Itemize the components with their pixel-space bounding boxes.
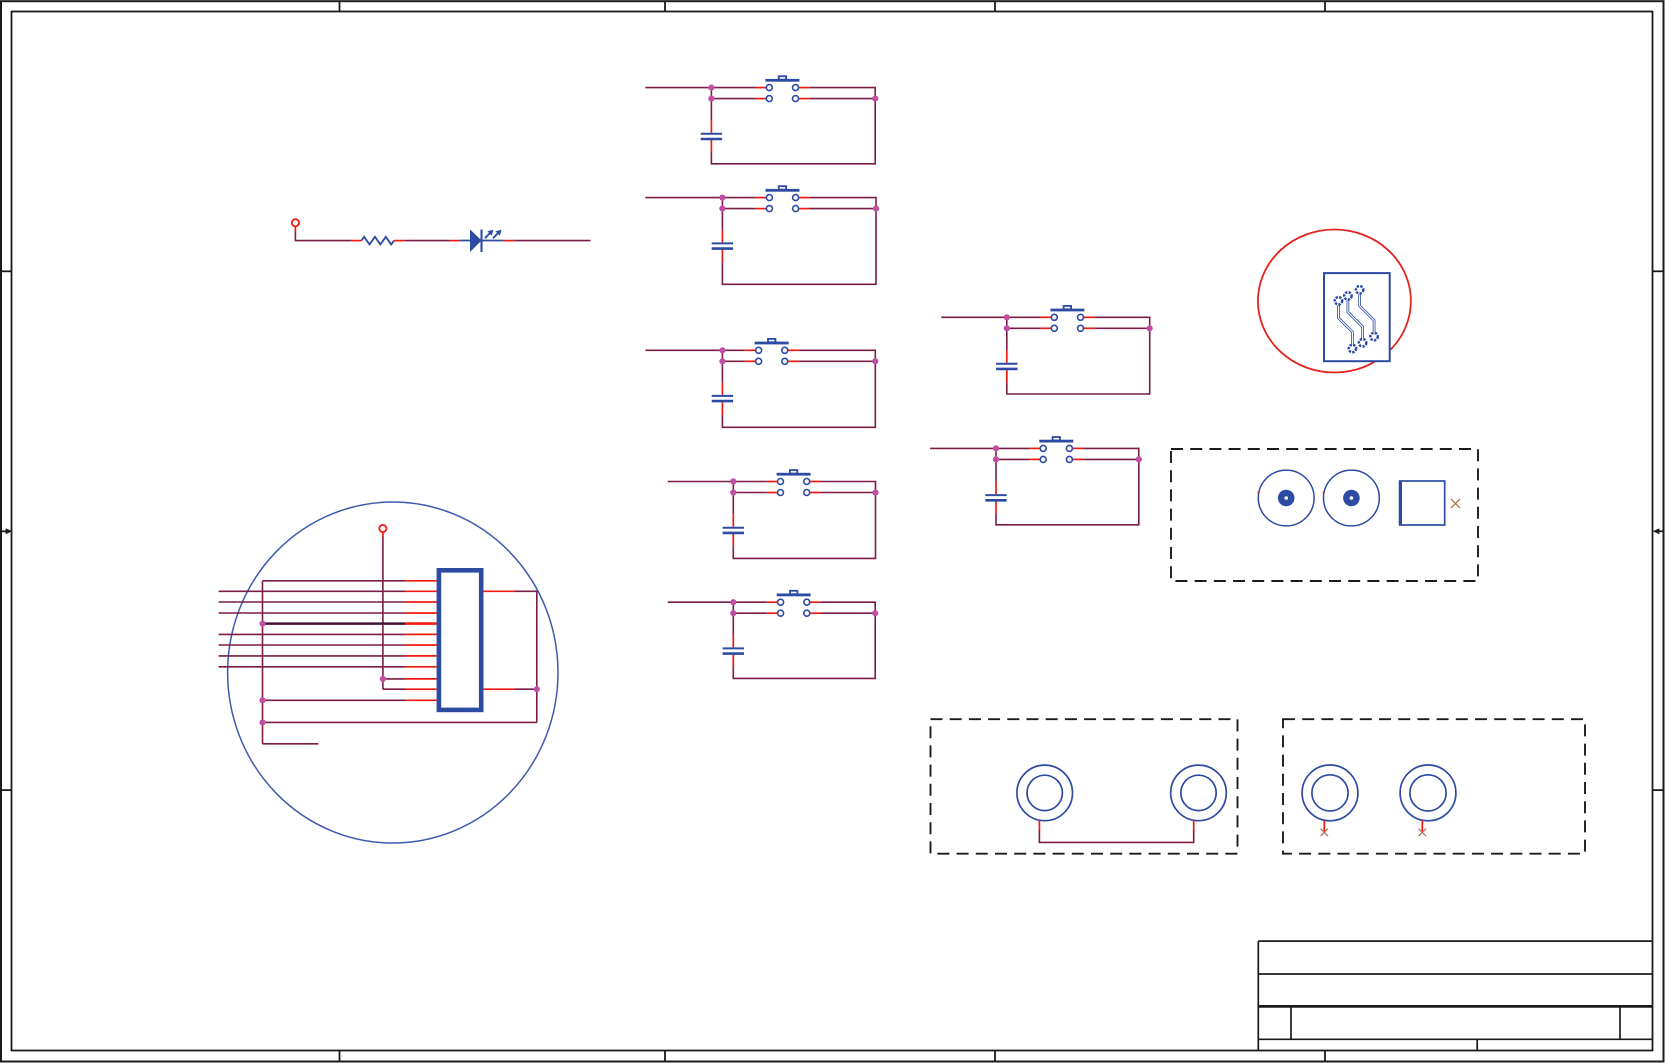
wire: [733, 612, 767, 614]
wire: [732, 602, 734, 613]
wire: [821, 492, 876, 494]
wire: [732, 493, 734, 515]
wire: [733, 492, 766, 494]
junction: [872, 610, 878, 616]
wire: [722, 360, 744, 362]
junction: [259, 719, 265, 725]
wire: [710, 88, 712, 99]
wire: [219, 633, 406, 635]
junction: [380, 676, 386, 682]
PCB logo pad 6: [1370, 333, 1377, 340]
wire: [668, 481, 767, 483]
wire: [711, 88, 875, 164]
push-button circuit SW6: [941, 306, 1153, 394]
switch SW6 pin stubs: [1041, 317, 1095, 328]
capacitor C4 pin stub: [732, 514, 734, 527]
junction: [719, 195, 725, 201]
wire: [219, 644, 406, 646]
switch SW7: [1039, 437, 1073, 462]
wire: [382, 538, 384, 690]
LED D1 pin stub: [449, 240, 460, 242]
no-connect mark: [1419, 829, 1426, 836]
junction: [730, 489, 736, 495]
push-button circuit SW1: [645, 76, 878, 164]
wire: [941, 316, 1040, 318]
junction: [730, 610, 736, 616]
wire: [721, 209, 723, 230]
left centering arrow: [1, 528, 12, 534]
wire: [1083, 458, 1139, 460]
PCB logo pad 3: [1356, 286, 1363, 293]
PCB logo pad 2: [1344, 292, 1351, 299]
wire: [383, 688, 406, 690]
wire: [295, 232, 350, 241]
capacitor C6 pin stub: [1006, 370, 1008, 383]
wire: [809, 98, 875, 100]
PCB logo trace 2: [1348, 300, 1363, 338]
junction: [872, 96, 878, 102]
wire: [515, 591, 537, 722]
wire: [722, 198, 876, 285]
capacitor C3: [712, 396, 733, 401]
highlight circle: [228, 502, 558, 843]
capacitor C7 pin stub: [995, 501, 997, 514]
junction: [730, 478, 736, 484]
wire: [514, 240, 590, 242]
wire: [722, 208, 755, 210]
junction: [1147, 325, 1153, 331]
switch SW4 pin stubs: [767, 482, 821, 493]
wire: [930, 447, 1029, 449]
push-button circuit SW2: [645, 186, 879, 284]
connector pin P2: [379, 525, 386, 532]
wire: [1039, 830, 1193, 842]
wire: [262, 581, 264, 744]
PCB logo pad 5: [1359, 339, 1366, 346]
PCB logo trace 3: [1360, 294, 1375, 332]
capacitor C2 pin stub: [721, 230, 723, 243]
jacks group box 2: [1283, 719, 1585, 854]
wire: [645, 197, 755, 199]
junction: [708, 85, 714, 91]
wire: [1094, 327, 1149, 329]
wire: [263, 721, 537, 723]
capacitor C1: [701, 134, 722, 139]
junction: [719, 358, 725, 364]
wire: [711, 98, 755, 100]
switch SW1: [765, 76, 799, 101]
wire: [710, 99, 712, 121]
wire: [405, 240, 449, 242]
no-connect mark: [1321, 829, 1328, 836]
junction: [259, 621, 265, 627]
wire: [1007, 317, 1150, 394]
resistor R1 pin stub: [351, 240, 362, 242]
mounting hole H2: [1323, 470, 1380, 526]
wire: [219, 601, 406, 603]
capacitor C1 pin stub: [710, 120, 712, 133]
capacitor C5: [723, 648, 744, 653]
junction: [1004, 314, 1010, 320]
capacitor C5 pin stub: [732, 635, 734, 648]
jacks group box: [931, 719, 1238, 854]
wire: [1006, 328, 1008, 350]
jack J1 pin stub: [1038, 820, 1040, 831]
wire: [733, 602, 875, 678]
wire: [219, 666, 406, 668]
jack J1: [1017, 765, 1073, 821]
junction: [1004, 325, 1010, 331]
wire: [733, 482, 875, 559]
capacitor C7 pin stub: [995, 482, 997, 495]
junction: [872, 358, 878, 364]
switch SW2 pin stubs: [756, 198, 810, 209]
switch SW3: [755, 339, 789, 364]
wire: [1006, 317, 1008, 328]
wire: [645, 87, 755, 89]
capacitor C2: [712, 243, 733, 248]
connector U1: [439, 570, 481, 710]
right centering arrow: [1653, 528, 1664, 534]
push-button circuit SW4: [668, 470, 879, 558]
wire: [263, 699, 406, 701]
wire: [721, 350, 723, 361]
PCB logo frame: [1324, 273, 1390, 361]
wire: [645, 349, 744, 351]
switch SW2: [766, 186, 800, 211]
capacitor C3 pin stub: [721, 402, 723, 415]
wire: [722, 350, 875, 427]
connector U1 pin stubs: [405, 581, 514, 701]
PCB logo trace 1: [1339, 305, 1353, 344]
junction: [873, 206, 879, 212]
junction: [259, 697, 265, 703]
jack J3 pin stub: [1323, 820, 1325, 831]
resistor R1: [361, 237, 394, 245]
junction: [872, 489, 878, 495]
title block: [1258, 941, 1652, 1050]
wire: [996, 448, 1139, 524]
no-connect mark: [1451, 499, 1460, 508]
switch SW7 pin stubs: [1029, 448, 1083, 459]
wire: [219, 590, 406, 592]
switch SW4: [777, 470, 811, 495]
push-button circuit SW7: [930, 437, 1142, 525]
wire: [809, 208, 876, 210]
junction: [719, 206, 725, 212]
switch SW3 pin stubs: [745, 350, 799, 361]
switch SW1 pin stubs: [756, 88, 810, 99]
capacitor C6 pin stub: [1006, 350, 1008, 363]
wire: [821, 612, 876, 614]
wire: [383, 678, 406, 680]
capacitor C2 pin stub: [721, 250, 723, 263]
switch SW6: [1050, 306, 1084, 331]
wire: [721, 198, 723, 209]
jack J2 pin stub: [1193, 820, 1195, 831]
capacitor C4 pin stub: [732, 534, 734, 547]
PCB logo pad 1: [1335, 297, 1342, 304]
jack J4: [1400, 765, 1456, 821]
wire: [1007, 327, 1041, 329]
wire: [263, 580, 406, 582]
wire: [263, 743, 319, 745]
wire: [995, 448, 997, 459]
LED D1 pin stub: [503, 240, 514, 242]
capacitor C7: [985, 495, 1006, 500]
junction: [993, 456, 999, 462]
wire: [668, 601, 767, 603]
capacitor C3 pin stub: [721, 382, 723, 395]
switch SW5 pin stubs: [767, 602, 821, 613]
junction: [708, 96, 714, 102]
junction: [1136, 456, 1142, 462]
wire: [219, 612, 406, 614]
jack J3: [1302, 765, 1358, 821]
junction: [993, 445, 999, 451]
wire: [996, 458, 1029, 460]
capacitor C6: [996, 364, 1017, 369]
push-button circuit SW5: [668, 591, 879, 679]
wire: [799, 360, 876, 362]
capacitor C4: [723, 528, 744, 533]
pin stub: [294, 227, 296, 233]
mounting holes group box: [1171, 449, 1478, 581]
resistor R1 pin stub: [394, 240, 405, 242]
wire (bold net): [263, 622, 406, 625]
switch SW5: [777, 591, 811, 616]
pad P3: [1400, 481, 1445, 525]
PCB logo pad 4: [1349, 345, 1356, 352]
capacitor C1 pin stub: [710, 140, 712, 153]
jack J4 pin stub: [1421, 820, 1423, 831]
LED D1: [460, 229, 503, 252]
wire: [732, 613, 734, 635]
junction: [719, 347, 725, 353]
connector pin P1: [292, 219, 299, 226]
junction: [534, 686, 540, 692]
push-button circuit SW3: [645, 339, 878, 427]
jack J2: [1171, 765, 1227, 821]
wire: [515, 688, 537, 690]
pin stub: [382, 532, 384, 538]
wire: [732, 482, 734, 493]
wire: [995, 459, 997, 481]
wire: [219, 655, 406, 657]
mounting hole H1: [1258, 470, 1315, 526]
junction: [730, 599, 736, 605]
red highlight circle: [1258, 230, 1411, 373]
capacitor C5 pin stub: [732, 655, 734, 668]
wire: [721, 361, 723, 382]
